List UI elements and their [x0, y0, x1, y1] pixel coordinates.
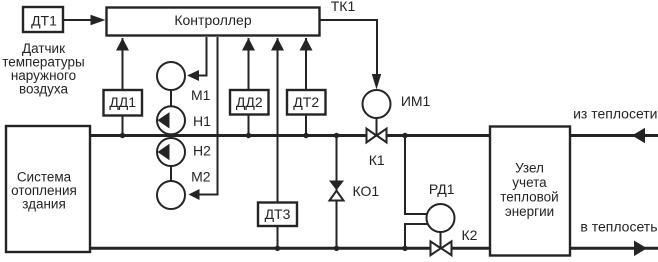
- svg-text:из теплосети: из теплосети: [573, 106, 657, 122]
- svg-text:К1: К1: [369, 152, 385, 168]
- svg-text:Н1: Н1: [193, 113, 211, 129]
- svg-text:воздуха: воздуха: [19, 82, 68, 97]
- svg-text:ДТ3: ДТ3: [265, 206, 291, 222]
- svg-text:Н2: Н2: [193, 143, 211, 159]
- svg-text:РД1: РД1: [429, 181, 455, 197]
- svg-text:тепловой: тепловой: [500, 190, 558, 205]
- svg-text:ТК1: ТК1: [331, 0, 356, 14]
- svg-text:энергии: энергии: [505, 204, 554, 219]
- svg-text:в теплосеть: в теплосеть: [580, 219, 657, 235]
- svg-text:КО1: КО1: [352, 183, 379, 199]
- svg-text:ДТ2: ДТ2: [293, 94, 319, 110]
- svg-text:М1: М1: [191, 87, 211, 103]
- svg-text:ИМ1: ИМ1: [401, 93, 431, 109]
- svg-text:М2: М2: [191, 168, 211, 184]
- svg-text:ДД1: ДД1: [109, 94, 136, 110]
- svg-text:К2: К2: [462, 227, 478, 243]
- svg-text:ДД2: ДД2: [236, 94, 263, 110]
- svg-text:здания: здания: [22, 197, 66, 212]
- svg-text:Узел: Узел: [515, 161, 544, 176]
- svg-text:учета: учета: [512, 175, 547, 190]
- svg-text:Контроллер: Контроллер: [174, 12, 251, 28]
- svg-text:ДТ1: ДТ1: [31, 13, 57, 29]
